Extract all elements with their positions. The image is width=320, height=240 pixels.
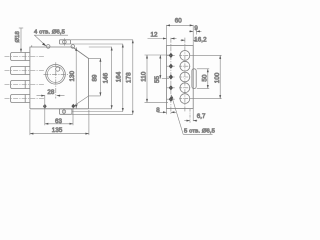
svg-text:16,2: 16,2 <box>194 37 207 44</box>
dim 16,2 <box>180 37 207 44</box>
hole top-left <box>46 45 50 49</box>
svg-text:4 отв. Ø6,5: 4 отв. Ø6,5 <box>34 29 66 35</box>
dim 130 <box>69 47 77 108</box>
svg-text:130: 130 <box>69 70 76 81</box>
bottom box hole centerline <box>63 109 65 115</box>
plate diamonds column centerline <box>170 38 172 115</box>
dim 164 <box>116 44 124 112</box>
extension from body bottom (for 146) <box>88 108 112 110</box>
circle P5 <box>179 94 190 104</box>
svg-text:50: 50 <box>201 74 208 82</box>
circle P1 <box>179 51 190 61</box>
svg-text:60: 60 <box>175 17 183 24</box>
tab 2 <box>5 67 45 75</box>
svg-text:8: 8 <box>156 107 160 114</box>
svg-text:146: 146 <box>103 72 110 83</box>
svg-text:135: 135 <box>52 127 63 134</box>
dia18 dimension line <box>19 28 23 52</box>
dim 8 <box>156 107 176 114</box>
dim 6,7 <box>184 109 206 123</box>
svg-text:110: 110 <box>141 71 148 82</box>
svg-text:178: 178 <box>126 72 133 83</box>
circle P3 <box>179 72 190 82</box>
body outline (left view, valve body) <box>30 45 89 108</box>
dim 63 <box>45 107 73 125</box>
dim 50 <box>197 69 209 89</box>
extension line from top box top (for 178) <box>71 39 133 41</box>
svg-text:28: 28 <box>47 89 55 96</box>
big circle small hole <box>56 67 60 71</box>
svg-text:164: 164 <box>116 71 123 82</box>
dim 89 <box>91 58 101 96</box>
top box hole centerline <box>63 38 65 45</box>
body vertical centerline <box>55 62 57 98</box>
bottom-left hole diamond <box>43 104 47 109</box>
bottom-left hole extension vertical <box>44 95 46 125</box>
svg-text:63: 63 <box>55 118 63 125</box>
svg-text:100: 100 <box>214 72 221 83</box>
bottom-right hole diamond <box>71 104 75 109</box>
side tab (rounded) <box>192 69 196 89</box>
jog extension bottom (89 dim) <box>75 96 101 106</box>
svg-text:Ø18: Ø18 <box>15 30 21 42</box>
label 5 otv dia6.5 with leader <box>171 95 215 135</box>
diamond hole D2 <box>169 64 173 69</box>
top box hole <box>63 40 67 44</box>
plate circles column centerline <box>184 38 186 112</box>
svg-text:5 отв. Ø6,5: 5 отв. Ø6,5 <box>184 129 216 135</box>
label 4 otv dia6.5 <box>34 29 68 46</box>
jog extension top (89 dim) <box>74 48 100 58</box>
big circle outer <box>46 65 66 85</box>
extension lowest (for 178) <box>72 113 133 115</box>
extension lower (for 164) <box>72 111 123 113</box>
svg-text:89: 89 <box>91 74 98 82</box>
diamond hole D1 <box>169 53 173 58</box>
extension line from top box bottom (for 164) <box>71 43 123 45</box>
diamond hole D5 <box>169 97 173 102</box>
bottom box (lower plug block) <box>59 109 72 115</box>
dim 28 <box>37 89 65 96</box>
dim 146 <box>103 47 113 109</box>
dim 9 <box>189 25 201 34</box>
hole top-right <box>71 45 75 49</box>
tab 4 <box>5 95 45 103</box>
dim 12 <box>148 32 177 40</box>
diamond hole D3 <box>169 74 173 79</box>
svg-text:9: 9 <box>194 25 198 32</box>
big circle inner <box>47 66 63 82</box>
top box (plug block) <box>59 40 70 44</box>
circle P4 <box>179 83 190 93</box>
extension line from body top (for 146) <box>89 46 112 48</box>
dim 100 <box>190 55 221 98</box>
svg-text:12: 12 <box>151 32 159 39</box>
dim 60 <box>167 17 194 45</box>
tab 1 (cylindrical stud) <box>5 53 45 61</box>
circle P2 <box>179 61 190 71</box>
plate outline (right view) <box>167 46 194 109</box>
dim 178 <box>126 40 134 115</box>
dim 110 <box>141 55 169 102</box>
tab 3 <box>5 81 45 89</box>
dim 135 <box>30 110 89 135</box>
svg-text:6,7: 6,7 <box>197 113 206 120</box>
bottom box hole <box>62 110 65 113</box>
dim 55 <box>154 55 169 83</box>
big circle horizontal centerline <box>44 73 69 75</box>
arrowhead to bottom-right hole <box>74 104 78 106</box>
diamond hole D4 <box>169 85 173 90</box>
svg-text:55: 55 <box>154 75 161 83</box>
